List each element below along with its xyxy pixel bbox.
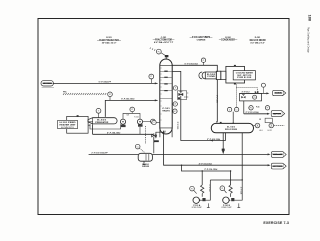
column bottom outlet drain bbox=[154, 131, 165, 143]
svg-text:LV-22: LV-22 bbox=[267, 130, 271, 132]
line feed lower to column bbox=[105, 99, 158, 117]
vessel C-101 column bbox=[160, 59, 172, 137]
line feed main bbox=[53, 82, 158, 84]
black tee mark on drum inlet bbox=[153, 142, 155, 153]
junction dots bbox=[181, 121, 243, 180]
svg-text:TRAYS: TRAYS bbox=[162, 109, 170, 112]
instrument bubble on feed line bbox=[149, 74, 154, 83]
signal line dashed to FC bbox=[63, 93, 106, 95]
title E-102 condenser bbox=[219, 37, 238, 42]
svg-text:2"-P-113-150#: 2"-P-113-150# bbox=[246, 112, 260, 114]
svg-text:—FRACTIONATOR—: —FRACTIONATOR— bbox=[153, 38, 175, 41]
boundary flag bottoms bbox=[271, 163, 286, 169]
svg-text:FOR E-102: FOR E-102 bbox=[237, 77, 251, 79]
svg-text:188: 188 bbox=[307, 15, 312, 22]
wire pump suction manifold bbox=[90, 124, 121, 129]
svg-text:6"-P-109-150#: 6"-P-109-150# bbox=[185, 64, 199, 66]
bubbles right of drum bbox=[254, 123, 263, 132]
svg-text:E-101: E-101 bbox=[106, 37, 112, 39]
valve on drum inlet bbox=[152, 133, 157, 143]
border frame of drawing bbox=[38, 19, 289, 215]
svg-text:PV: PV bbox=[254, 97, 256, 99]
svg-text:—P-101 A/B PUMPS—: —P-101 A/B PUMPS— bbox=[190, 36, 213, 39]
svg-text:EXERCISE 7-3: EXERCISE 7-3 bbox=[263, 221, 289, 225]
label inside column bbox=[162, 108, 170, 112]
instrument bubble FT on signal bbox=[108, 92, 113, 100]
svg-text:LG-5: LG-5 bbox=[259, 130, 263, 132]
signal dashed from condenser bbox=[236, 84, 257, 107]
svg-text:4"-P-104-150#: 4"-P-104-150# bbox=[107, 132, 121, 135]
pump1 discharge loop bbox=[199, 180, 210, 200]
condenser water box bbox=[221, 65, 256, 85]
svg-text:3"-P-110: 3"-P-110 bbox=[176, 122, 178, 130]
instrument bubble LC near drum bbox=[135, 144, 144, 152]
discharge header bbox=[210, 179, 242, 181]
svg-text:4"-P-115-150#: 4"-P-115-150# bbox=[199, 162, 213, 165]
control box with PV bbox=[240, 93, 262, 101]
title C-101 fractionator bbox=[153, 37, 175, 44]
small marks above right bubbles bbox=[259, 118, 272, 122]
svg-text:BTMS PUMP: BTMS PUMP bbox=[221, 207, 232, 209]
svg-text:30" DIA x 12'-0": 30" DIA x 12'-0" bbox=[102, 42, 117, 45]
tray marks bbox=[160, 68, 172, 120]
svg-text:DRUM: DRUM bbox=[142, 166, 149, 168]
instrument bubble above E-101 bbox=[96, 108, 101, 117]
svg-text:GAS: GAS bbox=[275, 92, 283, 95]
instrument bubble pump2 bbox=[220, 186, 227, 193]
svg-text:D-101: D-101 bbox=[255, 37, 261, 39]
pump suction header bbox=[182, 165, 231, 171]
svg-text:COND: COND bbox=[207, 76, 216, 78]
pump P-101A bbox=[192, 197, 210, 209]
svg-text:P-66: P-66 bbox=[256, 106, 259, 108]
instrument bubble on overhead bbox=[201, 58, 205, 65]
svg-text:3"-P-116-150#: 3"-P-116-150# bbox=[204, 169, 218, 171]
svg-text:Pipe Drafting and Design: Pipe Drafting and Design bbox=[307, 27, 310, 54]
suction drop pump2 with flex bbox=[229, 171, 232, 193]
pump P-101B bbox=[221, 197, 240, 209]
bubbles on column right edge bbox=[173, 86, 177, 90]
title P-101 pumps bbox=[190, 36, 213, 42]
title D-101 reflux drum bbox=[250, 37, 266, 44]
bubble on column left near bottom bbox=[152, 120, 160, 124]
exchanger E-102 condenser bbox=[199, 71, 221, 79]
control valve station on reflux bbox=[178, 91, 189, 100]
pump2 discharge loop bbox=[231, 180, 243, 200]
pump P-101B circle bbox=[137, 119, 142, 134]
svg-text:P-101: P-101 bbox=[134, 116, 139, 118]
bubbles pair above drum bbox=[227, 107, 231, 111]
svg-text:VAPOR: VAPOR bbox=[272, 112, 281, 115]
boundary flag GAS bbox=[273, 90, 286, 95]
drain mark under small drum bbox=[143, 161, 146, 164]
distillate draw arrow from drum bbox=[222, 133, 225, 154]
svg-text:REFLUX DRUM: REFLUX DRUM bbox=[225, 129, 237, 131]
instrument bubble column top bbox=[150, 48, 165, 56]
suction drop pump1 with flex bbox=[201, 171, 204, 193]
svg-text:UNIT FEED: UNIT FEED bbox=[43, 83, 53, 85]
instrument bubble above pumps bbox=[130, 107, 135, 113]
svg-text:40 MM BTU: 40 MM BTU bbox=[61, 127, 75, 129]
svg-text:—CONDENSER—: —CONDENSER— bbox=[219, 40, 238, 42]
svg-text:3"-P-112: 3"-P-112 bbox=[242, 92, 251, 94]
svg-text:—FEED PREHEATER—: —FEED PREHEATER— bbox=[97, 39, 122, 42]
small drum D-102 bbox=[138, 153, 152, 168]
signal dashed vertical bbox=[144, 126, 146, 144]
svg-text:3"-P-118: 3"-P-118 bbox=[240, 187, 242, 195]
svg-text:3"-P-117: 3"-P-117 bbox=[208, 184, 210, 192]
boundary flag distillate bbox=[271, 152, 286, 158]
instrument bubble pump1 bbox=[190, 186, 197, 193]
svg-text:3'-0" DIA x 9'-0": 3'-0" DIA x 9'-0" bbox=[250, 42, 265, 45]
svg-text:6x8: 6x8 bbox=[127, 114, 130, 116]
svg-text:BTMS PUMP: BTMS PUMP bbox=[192, 207, 203, 209]
vent flag on column top bbox=[165, 55, 169, 60]
wire pump discharge manifold bbox=[93, 124, 154, 134]
svg-text:BOTTOMS: BOTTOMS bbox=[272, 166, 283, 168]
svg-text:CHARGE: CHARGE bbox=[197, 39, 206, 42]
svg-text:6"-P-150#-FF: 6"-P-150#-FF bbox=[99, 82, 112, 84]
wire pump header bbox=[123, 113, 140, 119]
drum downcomer to pumps bbox=[241, 133, 243, 180]
line to GAS flag bbox=[240, 83, 270, 94]
distillate line to flag bbox=[152, 153, 270, 155]
svg-text:4'-6" DIA x 52'-0" T-T: 4'-6" DIA x 52'-0" T-T bbox=[154, 41, 174, 44]
bubbles PIC pair right bbox=[249, 106, 260, 110]
pump P-101A circle bbox=[120, 119, 125, 127]
exchanger E-101 bbox=[88, 118, 117, 124]
svg-text:REFLUX DRUM: REFLUX DRUM bbox=[250, 40, 266, 42]
svg-text:6"-P-102-150#: 6"-P-102-150# bbox=[121, 99, 135, 101]
heater label box bbox=[58, 120, 78, 129]
title E-101 preheater bbox=[97, 37, 122, 44]
boundary flag VAP bbox=[271, 111, 285, 117]
svg-text:PREHEATER: PREHEATER bbox=[95, 121, 109, 124]
svg-text:3"-P-110-150#: 3"-P-110-150# bbox=[207, 139, 221, 141]
vessel D-101 reflux drum bbox=[211, 122, 253, 133]
svg-text:6"-P-109: 6"-P-109 bbox=[215, 95, 217, 103]
reflux line to column bbox=[172, 71, 225, 141]
instrument bubble right of pumps bbox=[143, 119, 156, 124]
overhead vapor line bbox=[172, 65, 217, 121]
bottoms line to flag bbox=[164, 131, 271, 167]
svg-text:22: 22 bbox=[259, 119, 261, 121]
svg-text:DISTILLATE: DISTILLATE bbox=[272, 153, 283, 156]
boundary flag UNIT FEED bbox=[41, 81, 54, 88]
heater H-101 box bbox=[67, 115, 93, 133]
svg-text:FT: FT bbox=[150, 76, 152, 78]
line to OVHD VAP flag bbox=[244, 101, 270, 115]
